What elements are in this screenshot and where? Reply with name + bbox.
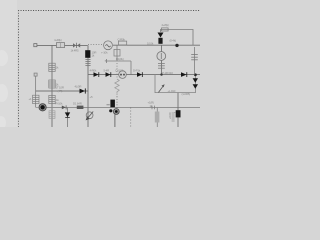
svg-text:C-R0k: C-R0k (118, 37, 126, 41)
left page margin (0, 0, 17, 127)
diode D3 (black, on y91 wire) (80, 89, 86, 94)
capacitor C2 (fuse box on top loop wire) (162, 28, 169, 31)
scan highlight blob 2 (0, 84, 8, 102)
wire: vertical x=52 (left ladder) (51, 45, 53, 127)
diode D7 (black on y74.6) (106, 72, 111, 77)
wire: dotted vertical x117 (upper) (116, 63, 118, 79)
speaker M1 (black ringed circle, bottom left) (39, 104, 46, 111)
svg-text:4L/0R: 4L/0R (75, 85, 82, 89)
source G2 (circle on x161.5) (157, 52, 166, 61)
resistor R8 (hatched on x88) (85, 59, 90, 65)
wire: vertical x=35.6 from J2 down (35, 76, 37, 107)
svg-text:+0.00: +0.00 (168, 112, 172, 119)
resistor R7 (dark box on bottom rail) (77, 106, 84, 109)
inductor L1 (box on top rail) (119, 41, 127, 45)
svg-text:(0-4k): (0-4k) (170, 39, 177, 43)
svg-text:1k 4R5: 1k 4R5 (71, 48, 80, 52)
diode D5 (black, pointing down on x67.5) (65, 112, 70, 117)
resistor R10 (faint zigzag x117) (115, 79, 119, 93)
svg-text:(4R): (4R) (58, 89, 63, 93)
svg-text:+L 010: +L 010 (168, 89, 176, 93)
svg-text:2+8(k): 2+8(k) (162, 23, 169, 27)
sub-box (bottom right loop) (155, 75, 195, 93)
node dot A (top rail x=177) (175, 44, 178, 47)
border frame: top dotted (18, 10, 200, 12)
wire: top-right loop (161, 30, 194, 46)
wire: vertical x=161.5 (source branch) (161, 45, 163, 74)
svg-text:5-4R: 5-4R (104, 69, 110, 73)
wire: vertical x=178 (to bottom) (177, 93, 179, 127)
svg-text:D-P1k: D-P1k (133, 69, 141, 73)
wire: vertical x=67.5 (diode branch to bottom) (67, 108, 69, 128)
wire: stem below jack P1 (114, 114, 116, 127)
lamp B1 (circle on y74.6) (119, 71, 127, 79)
source circle G1 (on top rail) (104, 41, 113, 50)
wire: diode row y=74.6 (88, 74, 200, 76)
transistor Q1 (circle+arrow on x88 bottom) (86, 112, 93, 119)
diode D8 (black on y74.6) (137, 72, 142, 77)
capacitor C3 (black polarized, above top rail) (158, 38, 162, 44)
svg-text:4+R(k): 4+R(k) (54, 38, 62, 42)
svg-text:D1 64R: D1 64R (73, 102, 82, 106)
wire: vertical x=131 stub to diode row (130, 61, 132, 75)
terminal J1 (input, on top rail) (34, 44, 37, 47)
resistor R2 (hatched box on x52) (49, 63, 55, 71)
jack P1 (ringed circle below rail) (113, 109, 119, 115)
node dot C (sub-box right top) (194, 73, 197, 76)
wire: vertical x=157 bottom with resistor smear (156, 108, 158, 128)
svg-text:10.0k: 10.0k (147, 42, 154, 46)
terminal tick left of stub (106, 59, 108, 63)
wire: dotted vertical x117 (lower) (116, 94, 118, 109)
svg-text:R-10k: R-10k (56, 102, 63, 106)
diode D9 (black on y74.6 right) (181, 72, 187, 77)
svg-text:+-10k: +-10k (101, 51, 108, 55)
wire: horizontal y=91 (J2 branch to x88) (36, 90, 88, 92)
wire: top rail right part (113, 44, 200, 46)
resistor R5 (hatched box on x52, faint) (49, 111, 55, 119)
terminal J2 (left, y=74.5) (34, 73, 37, 76)
node dot B (below rail) (109, 109, 112, 112)
capacitor C6 (plates on x161.5) (158, 63, 165, 68)
wire: stub y=61 (107, 60, 132, 62)
svg-text:(1-0R5): (1-0R5) (182, 92, 191, 96)
wire: dotted vertical x131 (bottom) (130, 108, 132, 128)
capacitor C4 (black polarized on x88) (85, 50, 90, 58)
capacitor C5 (black bar above bottom rail at x112.5) (110, 100, 115, 108)
svg-text:P-1R 010: P-1R 010 (162, 71, 173, 75)
resistor R11 (soft body on x157) (155, 112, 160, 123)
diode pair D1 (back-to-back on top rail) (73, 43, 76, 47)
wire: bottom rail y=107.5 (47, 106, 201, 108)
wire: dotted segment of top rail (88, 44, 103, 46)
svg-text:4-R0k: 4-R0k (90, 69, 97, 73)
resistor R1 (box on top rail) (57, 43, 65, 48)
border frame: left dotted (18, 10, 20, 127)
node dot D (x161.5 on diode row) (160, 73, 162, 75)
diode D4 (on bottom rail) (62, 106, 66, 110)
diode D11 (black stacked on right leg) (193, 84, 198, 89)
capacitor C7 (black on x178 below rail) (176, 110, 181, 117)
diode D10 (black stacked on right leg) (193, 78, 198, 83)
resistor R4 (hatched box on x52) (49, 95, 55, 103)
scan highlight blob 1 (0, 50, 8, 66)
pot arrow (inside sub-box) (159, 85, 164, 92)
diode D6 (black on y74.6) (94, 72, 99, 77)
wire: vertical x=88 (main center column) (87, 45, 89, 127)
scan highlight blob 3 (0, 116, 6, 130)
diode D2 (black, pointing down, top right leg) (158, 33, 164, 38)
label smear right (172, 112, 175, 122)
resistor R3 (hatched box on x52) (49, 80, 55, 88)
tick small at x108 stub left (105, 60, 107, 62)
wire: main top rail y=45.4 (37, 44, 88, 46)
resistor R6 (hatched box on x36) (33, 95, 39, 103)
resistor R9 (box between top rail and stub, x117) (116, 45, 118, 61)
capacitor C8 (plates on right vertical x194.5) (194, 47, 196, 75)
ticks on bottom rail x150-156 (151, 106, 153, 110)
